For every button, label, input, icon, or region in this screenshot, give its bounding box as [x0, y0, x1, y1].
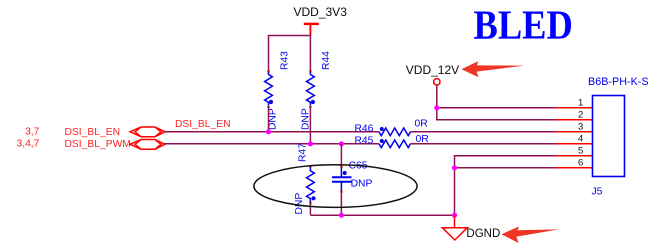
svg-text:BLED: BLED: [474, 2, 573, 48]
resistor R43: [265, 51, 291, 130]
junction VDD_12V: [434, 105, 439, 110]
wire VDD_12V to pin1: [437, 107, 556, 109]
svg-text:DGND: DGND: [466, 228, 500, 240]
svg-text:4: 4: [578, 134, 583, 145]
resistor R44: [300, 51, 332, 130]
off-page connector DSI_BL_PWM: [130, 140, 165, 150]
annotation arrow at VDD_12V: [462, 61, 525, 77]
svg-text:VDD_12V: VDD_12V: [406, 63, 459, 77]
resistor R46: [355, 118, 428, 135]
resistor R47: [294, 143, 316, 215]
svg-text:VDD_3V3: VDD_3V3: [294, 5, 348, 19]
svg-text:DSI_BL_EN: DSI_BL_EN: [65, 127, 121, 138]
svg-text:R46: R46: [355, 123, 374, 134]
wire R43 to EN net: [268, 106, 270, 132]
wire pin6 branch: [455, 167, 556, 169]
svg-text:DSI_BL_EN: DSI_BL_EN: [175, 119, 231, 130]
svg-text:B6B-PH-K-S: B6B-PH-K-S: [588, 76, 649, 88]
off-page connector DSI_BL_EN: [130, 127, 165, 137]
svg-text:5: 5: [578, 146, 583, 157]
wire R47 bottom: [309, 203, 311, 215]
power symbol VDD_3V3: [294, 5, 348, 36]
svg-text:6: 6: [578, 158, 583, 169]
wire DSI_BL_PWM: [165, 143, 380, 145]
svg-text:0R: 0R: [415, 118, 428, 129]
junction C65/ground bus: [339, 213, 344, 218]
wire VDD_12V to pin2: [436, 119, 555, 121]
svg-text:3,7: 3,7: [25, 126, 40, 137]
junction pin6: [452, 165, 457, 170]
connector J5 pins: [556, 108, 593, 168]
connector J5 body: [593, 96, 625, 177]
svg-text:R43: R43: [280, 51, 291, 70]
junction DGND tap: [452, 213, 457, 218]
svg-text:1: 1: [578, 98, 583, 109]
wire VDD_3V3 rail: [269, 36, 311, 72]
svg-text:2: 2: [578, 110, 583, 121]
wire R46 to pin3: [410, 131, 555, 133]
wire VDD_12V vertical: [436, 85, 438, 120]
svg-text:R45: R45: [355, 136, 374, 147]
annotation arrow at DGND: [502, 226, 560, 243]
wire pin5 branch: [455, 156, 556, 215]
junction R43/EN: [266, 129, 271, 134]
capacitor C65: [332, 161, 372, 193]
svg-text:3,4,7: 3,4,7: [16, 139, 39, 150]
resistor R45: [355, 134, 429, 148]
svg-text:DNP: DNP: [351, 178, 373, 189]
connector J5 pin numbers: [578, 98, 583, 169]
svg-text:3: 3: [578, 122, 583, 133]
svg-text:DSI_BL_PWM: DSI_BL_PWM: [65, 139, 131, 150]
ground DGND: [442, 215, 500, 240]
svg-text:R47: R47: [298, 143, 309, 162]
junction C65/PWM: [339, 141, 344, 146]
wire C65 bottom: [340, 192, 342, 216]
svg-text:R44: R44: [321, 51, 332, 70]
svg-text:DNP: DNP: [294, 193, 305, 215]
wire R44 to PWM net: [309, 106, 311, 144]
wire R45 to pin4: [410, 143, 555, 145]
wire DSI_BL_EN: [165, 131, 380, 133]
svg-text:J5: J5: [592, 187, 603, 198]
junction R44/PWM: [308, 141, 313, 146]
wire C65 top: [340, 144, 342, 167]
svg-text:DNP: DNP: [268, 108, 279, 130]
DNP ellipse annotation: [254, 165, 417, 208]
power port VDD_12V: [406, 63, 459, 85]
wire ground bus: [310, 214, 454, 216]
